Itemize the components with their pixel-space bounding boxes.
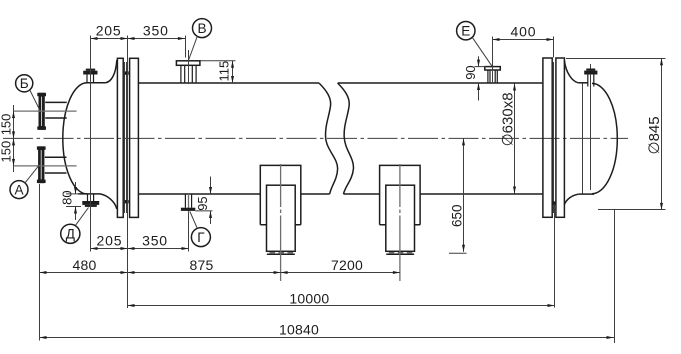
right head nozzle neck	[588, 75, 594, 87]
right head top tangent line	[578, 82, 587, 84]
left head bottom tangent line	[78, 193, 100, 195]
leader Г	[190, 212, 197, 229]
left gasket tick bottom	[125, 200, 129, 203]
right head bottom tangent line	[578, 193, 594, 195]
nozzle B centerline	[13, 110, 77, 112]
right head nozzle cap	[586, 69, 595, 71]
svg-text:∅630x8: ∅630x8	[500, 92, 517, 146]
right head seam line	[582, 84, 584, 194]
right girth flange F2	[556, 58, 565, 217]
nozzle V(В) on shell top: flange	[176, 61, 200, 66]
ext line left nozzle face	[39, 184, 41, 341]
nozzle B neck lines	[45, 102, 66, 118]
ext line right head end	[614, 209, 616, 343]
left head bottom knuckle	[100, 194, 117, 209]
left girth flange F2	[130, 58, 139, 217]
svg-text:115: 115	[217, 61, 232, 82]
dim 115 line	[232, 61, 234, 83]
svg-text:Е: Е	[461, 24, 470, 39]
right head top knuckle	[564, 61, 578, 83]
dim 650 ext bottom	[449, 252, 467, 254]
svg-text:В: В	[197, 21, 206, 36]
nozzle V neck	[181, 65, 196, 83]
dim 80 ext lines	[66, 194, 81, 207]
right gasket tick	[552, 201, 556, 204]
dim 150 arrows	[12, 111, 15, 118]
left head top nozzle flange	[83, 71, 97, 75]
svg-text:480: 480	[73, 257, 97, 273]
svg-text:650: 650	[450, 204, 465, 227]
left head top nozzle cap	[86, 69, 95, 71]
dim row4: 10840	[40, 337, 615, 339]
dim 95 line lower	[210, 211, 212, 224]
left head top knuckle	[106, 60, 117, 83]
label circle A(А)	[10, 181, 28, 199]
right head nozzle flange	[584, 71, 597, 75]
svg-text:∅845: ∅845	[646, 116, 663, 154]
leader Е	[473, 38, 492, 66]
nozzle A centerline	[13, 165, 77, 167]
svg-text:150: 150	[0, 141, 14, 163]
nozzle D flange	[82, 201, 99, 205]
svg-text:Г: Г	[197, 230, 205, 245]
dim 80 line	[75, 182, 77, 220]
svg-text:350: 350	[143, 23, 169, 39]
right head cap	[592, 83, 617, 193]
vessel centerline	[3, 137, 628, 139]
left head top tangent line	[86, 82, 106, 84]
right head bottom knuckle	[564, 194, 578, 204]
svg-text:А: А	[14, 183, 24, 198]
svg-text:400: 400	[511, 23, 537, 39]
nozzle D neck	[88, 194, 94, 201]
ext line girth flange gap	[127, 36, 129, 309]
label circle V(В)	[193, 19, 212, 38]
dim 400 ext left (nozzle E center)	[492, 37, 494, 83]
dim phi845 ext top	[566, 58, 666, 60]
dim row2: 480 / 875 / 7200	[40, 272, 400, 274]
ext line nozzle G center bottom	[188, 213, 190, 252]
dim phi845 line	[661, 58, 663, 210]
ext line head top nozzle / D nozzle center	[90, 36, 92, 252]
saddle 1 base line	[267, 253, 295, 255]
shell bottom line	[138, 193, 543, 195]
svg-text:90: 90	[463, 65, 478, 79]
dim 95 line upper	[210, 177, 212, 195]
dim 650 line	[463, 138, 465, 251]
nozzle D cap	[85, 205, 97, 207]
nozzle G(Г) neck	[185, 194, 191, 208]
saddle 2 centerline	[399, 164, 401, 281]
label circle G(Г)	[191, 228, 210, 247]
left head cap	[63, 83, 87, 194]
dim phi630x8 leader	[514, 84, 516, 194]
left head top nozzle neck	[87, 75, 94, 84]
nozzle A neck lines	[45, 157, 67, 173]
svg-text:Б: Б	[20, 76, 29, 91]
svg-text:205: 205	[97, 233, 123, 249]
shell top line	[138, 82, 543, 84]
ext line right flange gap bottom	[554, 205, 556, 308]
saddle 2 base line	[386, 253, 414, 255]
svg-text:10000: 10000	[289, 290, 329, 306]
leader В	[189, 36, 198, 59]
svg-text:10840: 10840	[279, 321, 319, 337]
left gasket tick top	[125, 71, 129, 74]
ext line nozzle V center top	[185, 36, 187, 58]
top dim row: 205 / 350	[91, 38, 186, 40]
nozzle B(Cyrillic Б) flange	[39, 93, 45, 130]
leader Б	[30, 90, 40, 111]
nozzle E on shell top: flange	[485, 67, 501, 70]
dim 400 line	[493, 39, 554, 41]
svg-text:150: 150	[0, 114, 14, 136]
bottom dim row1: 205 / 350	[91, 248, 189, 250]
dim row3: 10000	[128, 305, 555, 307]
svg-text:350: 350	[142, 233, 168, 249]
right gasket lines	[553, 62, 555, 213]
label circle E(Е)	[457, 22, 475, 40]
leader Д	[76, 208, 89, 226]
svg-text:Д: Д	[66, 227, 75, 242]
right girth flange F1	[543, 58, 552, 217]
right head nozzle center line	[590, 64, 592, 190]
nozzle A flange	[38, 146, 44, 183]
leader А	[25, 166, 39, 183]
dim 400 ext right	[553, 37, 555, 58]
dim 90 line lower	[478, 83, 480, 101]
nozzle E neck	[488, 70, 497, 83]
saddle 1 outer plate	[260, 165, 301, 224]
dim 150-150 line	[13, 105, 15, 172]
svg-text:205: 205	[96, 23, 122, 39]
break wave left	[319, 83, 338, 194]
svg-text:7200: 7200	[331, 257, 363, 273]
saddle 2 outer plate	[380, 165, 421, 224]
break wave right	[338, 83, 354, 194]
dim 90 line upper	[478, 56, 480, 66]
dim 115 ext line	[201, 60, 236, 62]
label circle D(Д)	[61, 224, 80, 243]
label circle B(Б)	[16, 75, 33, 92]
dim phi845 ext bottom	[598, 209, 666, 211]
svg-text:80: 80	[60, 190, 75, 204]
saddle 1 centerline	[280, 164, 282, 281]
dim 95 ext line	[195, 210, 212, 212]
svg-text:95: 95	[195, 196, 210, 210]
saddle 1 support	[267, 185, 296, 251]
left girth flange F1	[117, 58, 123, 217]
dim 90 ext line	[475, 66, 487, 68]
left gasket lines	[125, 62, 127, 213]
saddle 2 support	[386, 185, 415, 251]
nozzle G flange	[181, 208, 195, 211]
svg-text:875: 875	[190, 257, 214, 273]
